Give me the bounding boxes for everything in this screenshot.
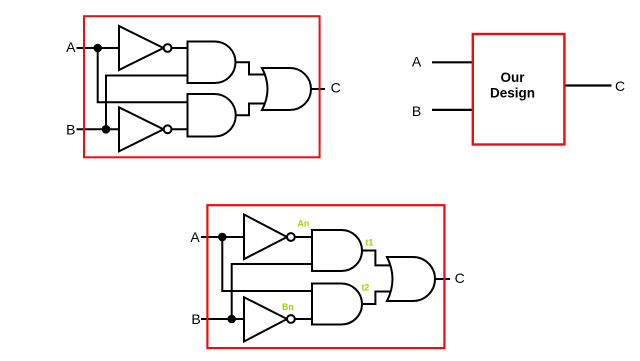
- svg-text:Design: Design: [490, 85, 535, 100]
- svg-text:A: A: [66, 39, 76, 55]
- svg-text:C: C: [615, 78, 625, 94]
- svg-text:B: B: [66, 121, 75, 137]
- svg-text:C: C: [455, 270, 465, 286]
- svg-text:t1: t1: [366, 238, 374, 248]
- svg-text:C: C: [331, 79, 341, 95]
- svg-text:t2: t2: [362, 283, 370, 293]
- svg-text:A: A: [190, 229, 200, 245]
- svg-text:B: B: [412, 103, 421, 119]
- svg-text:B: B: [191, 311, 200, 327]
- svg-text:Bn: Bn: [282, 302, 294, 312]
- svg-text:A: A: [412, 54, 422, 70]
- svg-text:An: An: [298, 218, 310, 228]
- svg-text:Our: Our: [500, 70, 525, 85]
